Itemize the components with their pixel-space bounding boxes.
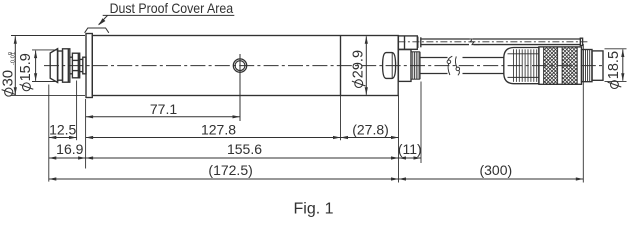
- svg-text:Dust Proof Cover Area: Dust Proof Cover Area: [110, 0, 234, 16]
- svg-text:30: 30: [0, 70, 17, 87]
- svg-text:(300): (300): [479, 162, 512, 178]
- svg-text:16.9: 16.9: [56, 141, 83, 157]
- svg-text:18.5: 18.5: [606, 51, 622, 79]
- svg-text:Fig. 1: Fig. 1: [293, 201, 333, 218]
- svg-text:(172.5): (172.5): [208, 162, 252, 178]
- svg-text:15.9: 15.9: [18, 53, 34, 81]
- svg-text:(11): (11): [398, 141, 422, 157]
- svg-text:12.5: 12.5: [49, 121, 76, 137]
- svg-text:77.1: 77.1: [150, 101, 177, 117]
- svg-text:(27.8): (27.8): [352, 122, 389, 138]
- svg-text:-0.01: -0.01: [10, 52, 16, 65]
- svg-text:155.6: 155.6: [227, 141, 262, 157]
- svg-text:127.8: 127.8: [201, 121, 236, 137]
- svg-text:29.9: 29.9: [351, 50, 367, 78]
